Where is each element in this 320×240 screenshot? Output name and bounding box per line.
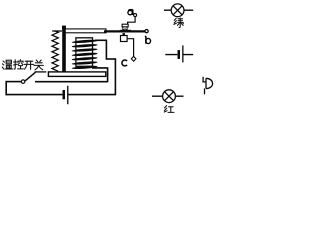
terminal a (134, 14, 137, 17)
label red (164, 106, 174, 113)
contact a label (128, 9, 133, 15)
relay iron core (76, 38, 93, 67)
relay lever left stub (52, 30, 62, 32)
armature contact plinth (120, 30, 131, 32)
red lamp L2 (163, 90, 176, 103)
wire right vertical S4 (114, 59, 116, 95)
wire battery to right (69, 94, 117, 96)
relay pivot cap (62, 26, 66, 30)
switch pivot (21, 80, 25, 84)
battery B1 short plate (63, 90, 66, 99)
contact a moving block (123, 27, 127, 30)
contact c nub (123, 33, 125, 35)
relay base (48, 72, 105, 77)
battery B2 long plate (182, 45, 183, 62)
wire jog S3 (106, 58, 116, 60)
contact c label (122, 60, 127, 66)
electric bell (203, 77, 212, 95)
battery B2 leads (165, 54, 193, 56)
switch fixed contact bar (35, 71, 47, 73)
label green (174, 18, 183, 28)
contact point (124, 28, 126, 30)
battery B1 long plate (67, 86, 68, 104)
red lamp leads (152, 95, 184, 97)
wire switch left lead (6, 81, 21, 83)
battery B2 short plate (178, 50, 181, 59)
green lamp leads (164, 9, 193, 11)
relay coil bottom lead (92, 67, 108, 82)
wire switch to coil (35, 81, 108, 83)
wire coil-top vertical S2 (105, 40, 107, 59)
contact b label (145, 36, 151, 44)
switch blade (open) (25, 72, 35, 81)
green lamp cross (173, 6, 182, 15)
wire coil-top lead S1 (95, 39, 107, 41)
relay lever arm to contacts (104, 30, 145, 32)
contact a fixed block (122, 24, 128, 27)
terminal c (diamond) (131, 56, 136, 61)
wire block to terminal c (127, 39, 134, 57)
wire bottom left (6, 94, 63, 96)
terminal b (145, 30, 148, 33)
relay spring (52, 31, 58, 71)
red lamp cross (165, 92, 174, 101)
label wen-kong-kai-guan (temperature switch) (2, 60, 43, 70)
wire left vertical (5, 81, 7, 95)
relay coil (7 turns) (72, 39, 98, 69)
relay post (62, 26, 66, 72)
green lamp L1 (171, 4, 184, 17)
relay armature lever bar (65, 29, 106, 33)
wire terminal a to block (128, 17, 136, 25)
contact c block (121, 36, 128, 42)
